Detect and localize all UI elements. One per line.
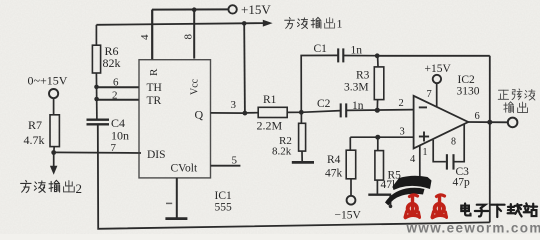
resistor R2 <box>299 123 306 151</box>
IC 555 box <box>139 60 211 178</box>
svg-text:1: 1 <box>337 17 343 31</box>
label square wave output 2 (chinese) <box>21 180 75 192</box>
svg-text:www.eeworm.com: www.eeworm.com <box>406 221 540 235</box>
svg-text:TH: TH <box>147 82 162 94</box>
wire arrow output2 <box>53 153 55 167</box>
label sine wave output (chinese) <box>498 89 535 113</box>
wire C4 bottom to ground rail <box>98 124 490 229</box>
resistor R7 <box>50 115 59 147</box>
wire pin7 up <box>436 83 438 107</box>
plus input mark <box>419 136 429 138</box>
svg-text:+15V: +15V <box>425 63 452 75</box>
labels: latin text <box>24 2 480 222</box>
node R7/DIS junction <box>51 150 56 155</box>
terminal -15V <box>347 196 356 205</box>
wire R3 bottom <box>376 100 378 111</box>
terminal +15V op-amp <box>433 75 441 83</box>
watermark bug characters (red) <box>405 195 447 218</box>
svg-text:4: 4 <box>139 34 151 40</box>
op-amp U2 triangle <box>414 96 469 149</box>
node output/feedback <box>487 120 492 125</box>
svg-text:Q: Q <box>195 108 204 122</box>
svg-text:CVolt: CVolt <box>171 163 198 175</box>
wire R5 stem top <box>377 137 379 150</box>
svg-text:IC1: IC1 <box>215 190 233 202</box>
svg-text:DIS: DIS <box>147 149 166 161</box>
capacitor C2 <box>341 103 347 117</box>
terminal 0~+15V <box>49 89 58 98</box>
wire pin4 down <box>419 145 421 180</box>
svg-text:8.2k: 8.2k <box>272 146 292 158</box>
svg-text:2: 2 <box>399 98 404 109</box>
wire plus-input line <box>350 136 413 138</box>
wire pin1 stub <box>433 140 446 162</box>
svg-text:3: 3 <box>400 127 405 138</box>
ground R2 <box>301 151 303 162</box>
svg-text:47k: 47k <box>325 168 343 180</box>
wire C1 right <box>343 55 377 57</box>
watermark swoosh <box>393 176 432 190</box>
svg-text:3: 3 <box>231 99 237 111</box>
svg-text:4.7k: 4.7k <box>24 133 45 147</box>
label square wave output 1 (chinese) <box>285 17 335 28</box>
svg-text:1n: 1n <box>351 45 363 57</box>
wire R6 top stem <box>95 25 97 45</box>
svg-text:7: 7 <box>111 142 117 154</box>
wire R6 bottom to C4 <box>95 73 98 120</box>
node C1/R3/feedback <box>375 53 380 58</box>
svg-text:10n: 10n <box>111 129 129 143</box>
wire pin3 riser <box>243 23 246 113</box>
arrow head square wave 1 <box>263 20 273 27</box>
wire square-wave-1 line <box>96 23 263 25</box>
svg-text:R1: R1 <box>263 94 277 106</box>
svg-text:8: 8 <box>451 137 456 148</box>
svg-text:6: 6 <box>475 111 480 122</box>
resistor R6 <box>92 45 100 73</box>
node pin3/R1 <box>243 111 248 116</box>
resistor R3 <box>377 56 379 67</box>
terminal +15V <box>228 5 236 13</box>
svg-text:47p: 47p <box>453 177 471 189</box>
node R1/C1/C2/R2 <box>299 110 304 115</box>
wire pin2 <box>97 99 139 101</box>
svg-text:C1: C1 <box>314 43 328 55</box>
wire pin4 vertical <box>151 10 153 60</box>
svg-text:R7: R7 <box>28 118 42 132</box>
svg-text:R4: R4 <box>327 154 341 166</box>
wire pin6 <box>97 86 140 88</box>
capacitor C3 <box>447 154 454 169</box>
svg-text:−15V: −15V <box>335 210 362 222</box>
svg-text:8: 8 <box>183 34 195 40</box>
node sq1/pin3 junction <box>242 21 247 26</box>
wire feedback top <box>377 55 490 57</box>
watermark site name (chinese) <box>461 203 537 217</box>
svg-text:5: 5 <box>232 155 238 167</box>
svg-text:0~+15V: 0~+15V <box>28 74 68 88</box>
resistor R5 <box>375 151 384 181</box>
wire R4 corner <box>349 137 351 150</box>
svg-text:1n: 1n <box>352 100 364 112</box>
minus input mark <box>419 106 427 108</box>
svg-text:7: 7 <box>427 89 432 100</box>
wire pin8 stub <box>454 124 464 161</box>
wire +15V top rail <box>152 8 228 10</box>
capacitor C1 <box>338 48 343 62</box>
wire R4 bottom <box>350 179 352 196</box>
svg-text:TR: TR <box>147 95 162 107</box>
wire R1 to node <box>287 111 301 113</box>
wire feedback right riser <box>489 56 491 223</box>
svg-text:1: 1 <box>423 147 428 158</box>
svg-text:C2: C2 <box>317 98 331 110</box>
svg-text:555: 555 <box>215 202 233 214</box>
wire C1 branch riser <box>301 55 338 112</box>
terminal sine out <box>508 118 518 128</box>
svg-text:IC2: IC2 <box>458 74 476 86</box>
svg-text:Vcc: Vcc <box>190 78 201 95</box>
wire R7 bottom <box>53 147 55 153</box>
svg-text:R3: R3 <box>356 70 370 82</box>
svg-text:2.2M: 2.2M <box>257 119 283 133</box>
resistor R1 <box>258 107 287 117</box>
ground R5 <box>376 180 378 195</box>
wire pin5 stub <box>211 165 241 167</box>
svg-text:6: 6 <box>113 77 119 89</box>
ground 555 <box>176 178 178 218</box>
node C2/R3/pin2 <box>375 108 380 113</box>
svg-text:4: 4 <box>410 154 416 165</box>
svg-text:2: 2 <box>112 90 118 102</box>
wire pin3 out <box>211 112 246 114</box>
svg-text:2: 2 <box>76 181 83 196</box>
svg-text:R: R <box>148 68 160 76</box>
wire C2 right to op-amp <box>346 109 413 112</box>
node top rail / pin8 junction <box>192 7 197 12</box>
svg-text:+15V: +15V <box>241 2 271 17</box>
wire output <box>468 121 508 123</box>
wire pin8 vertical <box>193 10 195 59</box>
node TH junction <box>94 85 99 90</box>
wire to R1 <box>245 112 258 114</box>
node plus/R5 <box>375 135 380 140</box>
wire C2 line <box>301 111 340 113</box>
capacitor C4 <box>87 120 110 125</box>
wire terminal to R7 <box>53 98 55 115</box>
node TR junction <box>94 97 99 102</box>
svg-text:3.3M: 3.3M <box>344 82 369 94</box>
svg-text:82k: 82k <box>103 56 121 70</box>
wire pin7 DIS line <box>54 151 141 154</box>
svg-text:3130: 3130 <box>457 86 480 98</box>
wire R2 stem <box>300 112 302 123</box>
resistor R4 <box>346 150 356 179</box>
